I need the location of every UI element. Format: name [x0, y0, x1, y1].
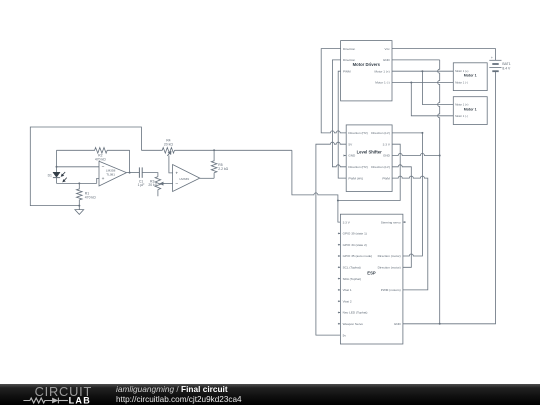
svg-text:LAB: LAB [69, 395, 91, 405]
wire GND trunk [438, 60, 440, 324]
svg-text:Motor 1 (-): Motor 1 (-) [375, 81, 389, 85]
svg-text:Direction (HV): Direction (HV) [348, 165, 367, 169]
pin stub ESP GPIO 39 (state 1) [338, 232, 341, 234]
svg-text:GND: GND [383, 58, 391, 62]
IC M2 motor bottom [453, 97, 487, 125]
wire 3.3V to level shifter [338, 144, 400, 200]
svg-text:5v: 5v [343, 333, 347, 337]
wire comparator inverting input [164, 183, 173, 185]
wire 5V (LS to ESP) [316, 142, 346, 335]
wire direction A (MD pin1 to LS) [321, 49, 346, 133]
node R4-R5 junction [213, 149, 215, 151]
svg-text:Motor 1: Motor 1 [464, 74, 477, 78]
pin stub ESP Vbat 2 [338, 300, 341, 302]
svg-text:Direction: Direction [343, 47, 355, 51]
wire motor2 minus [411, 83, 453, 116]
resistor R4 (pot) and 3.3V rail [141, 148, 292, 154]
potentiometer R3 [155, 177, 161, 197]
node GND-ESP junction [439, 323, 441, 325]
svg-text:Direction (LV): Direction (LV) [371, 131, 390, 135]
op-amp U2 LM339 [173, 165, 200, 192]
svg-text:iamliguangming / Final circuit: iamliguangming / Final circuit [116, 384, 228, 394]
wire feedback [129, 150, 131, 172]
svg-text:470 kΩ: 470 kΩ [85, 196, 96, 200]
svg-text:PWM: PWM [382, 176, 390, 180]
pin stub ESP SCL (Tophat) [338, 266, 341, 268]
IC U5 ESP [340, 214, 403, 344]
svg-text:Motor Drivers: Motor Drivers [353, 62, 381, 67]
wire LS GND right to trunk [392, 154, 440, 156]
svg-text:20 kΩ: 20 kΩ [164, 142, 173, 146]
svg-text:1 µF: 1 µF [138, 183, 145, 187]
svg-text:ESP: ESP [367, 271, 376, 276]
wire motor1 plus [392, 70, 453, 72]
wire direction LV1 (LS to ESP) [392, 133, 422, 256]
wire photodiode bottom rail [57, 182, 97, 184]
svg-text:GND: GND [383, 154, 391, 158]
node motor minus tap [410, 82, 412, 84]
svg-text:BAT1: BAT1 [502, 62, 510, 66]
wire 3.3V rail to blocks [292, 150, 338, 200]
svg-text:Motor 1 (+): Motor 1 (+) [374, 69, 389, 73]
svg-text:−: − [175, 182, 178, 187]
svg-text:+: + [102, 177, 105, 182]
wire PWM HV (MD pin3 to LS) [338, 71, 346, 178]
svg-text:TL081: TL081 [106, 172, 115, 176]
op-amp U1 LM358/TL081 [99, 161, 127, 186]
wire C1 to R3 [142, 173, 158, 177]
pin stub ESP Vbat 1 [338, 289, 341, 291]
ground [75, 206, 84, 215]
svg-text:GND: GND [394, 322, 402, 326]
svg-text:GPIO 34 (state 2): GPIO 34 (state 2) [343, 243, 367, 247]
svg-text:Motor 1 (-): Motor 1 (-) [455, 114, 468, 118]
resistor R2 [57, 148, 130, 154]
svg-text:Motor 1 (+): Motor 1 (+) [455, 103, 468, 107]
svg-text:8.4 V: 8.4 V [502, 66, 511, 70]
node ground junction [78, 205, 80, 207]
pin stub ESP SDA (Tophat) [338, 278, 341, 280]
svg-text:GPIO 39 (state 1): GPIO 39 (state 1) [343, 232, 367, 236]
svg-text:Steering servo: Steering servo [381, 220, 401, 224]
node GND-LS junction [439, 155, 441, 157]
node R1 top junction [78, 182, 80, 184]
IC U4 Level Shifter [346, 125, 392, 192]
wire Vcc to battery [392, 49, 496, 61]
svg-text:Direction: Direction [343, 58, 355, 62]
svg-text:Motor 1: Motor 1 [464, 108, 477, 112]
node motor plus tap [421, 70, 423, 72]
node 3.3V branch junction [337, 200, 339, 202]
svg-text:GPIO 35 (auto mode): GPIO 35 (auto mode) [343, 254, 373, 258]
svg-text:Vbat 2: Vbat 2 [343, 299, 352, 303]
wire direction B (MD pin2 to LS) [332, 60, 346, 167]
svg-text:SCL (Tophat): SCL (Tophat) [343, 266, 361, 270]
svg-text:LM339: LM339 [179, 177, 189, 181]
wire comparator noninverting input [169, 156, 173, 173]
pin stub LS GND left [344, 155, 347, 157]
wire comparator output [200, 177, 214, 179]
svg-text:Direction (HV): Direction (HV) [348, 131, 367, 135]
pin stub ESP GPIO 35 (auto mode) [338, 255, 341, 257]
photodiode D1 [56, 150, 58, 172]
svg-text:Motor 1 (-): Motor 1 (-) [455, 81, 468, 85]
IC U3 Motor Drivers [341, 41, 392, 101]
wire outer ground loop [30, 127, 141, 206]
svg-text:PWM: PWM [343, 69, 351, 73]
svg-text:20 kΩ: 20 kΩ [148, 183, 157, 187]
svg-text:D1: D1 [48, 173, 52, 177]
wire 3.3V to ESP [338, 201, 341, 223]
wire op-amp output [127, 172, 140, 174]
svg-text:Weapon Servo: Weapon Servo [343, 322, 364, 326]
wire noninverting jog [97, 178, 99, 183]
svg-text:Direction (motor): Direction (motor) [378, 266, 401, 270]
pin stub ESP Steering servo [403, 221, 406, 223]
svg-text:GND: GND [348, 154, 356, 158]
battery BAT1 [489, 59, 501, 61]
svg-text:http://circuitlab.com/cjt2u9kd: http://circuitlab.com/cjt2u9kd23ca4 [116, 395, 242, 404]
svg-text:PWM (motors): PWM (motors) [381, 288, 401, 292]
wire motor2 plus [422, 71, 453, 104]
svg-text:3.3 V: 3.3 V [343, 220, 351, 224]
node direction LV1 corner [421, 132, 423, 134]
svg-text:Level Shifter: Level Shifter [357, 150, 383, 155]
svg-text:−: − [102, 165, 105, 170]
svg-text:Vbat 1: Vbat 1 [343, 288, 352, 292]
node inverting input junction [56, 166, 58, 168]
svg-text:+: + [175, 172, 178, 177]
wire PWM LV (LS to ESP) [392, 176, 428, 290]
node feedback junction [129, 172, 131, 174]
svg-text:PWM (HV): PWM (HV) [348, 176, 363, 180]
pin stub ESP Neo LED (Tophat) [338, 312, 341, 314]
svg-text:Neo LED (Tophat): Neo LED (Tophat) [343, 311, 368, 315]
wire battery minus to ESP GND [403, 71, 496, 324]
svg-text:470 kΩ: 470 kΩ [95, 157, 106, 161]
pin stub ESP GPIO 34 (state 2) [338, 244, 341, 246]
wire inverting input [57, 166, 100, 168]
wire direction LV2 (LS to ESP) [392, 165, 411, 267]
svg-text:Direction (LV): Direction (LV) [371, 165, 390, 169]
svg-text:Vcc: Vcc [385, 47, 391, 51]
svg-text:Motor 1 (+): Motor 1 (+) [455, 69, 468, 73]
resistor R1 [77, 183, 83, 205]
IC M1 motor top [453, 63, 487, 91]
svg-text:3.3 V: 3.3 V [383, 142, 391, 146]
svg-text:SDA (Tophat): SDA (Tophat) [343, 277, 361, 281]
wire motor1 minus [392, 82, 453, 84]
svg-text:Direction (motor): Direction (motor) [378, 254, 401, 258]
svg-text:2.2 kΩ: 2.2 kΩ [218, 167, 228, 171]
capacitor C1 [138, 167, 140, 177]
pin stub ESP Weapon Servo [338, 323, 341, 325]
resistor R5 [211, 150, 217, 178]
svg-text:+: + [491, 56, 493, 60]
logo resistor-diode glyph [23, 398, 68, 404]
